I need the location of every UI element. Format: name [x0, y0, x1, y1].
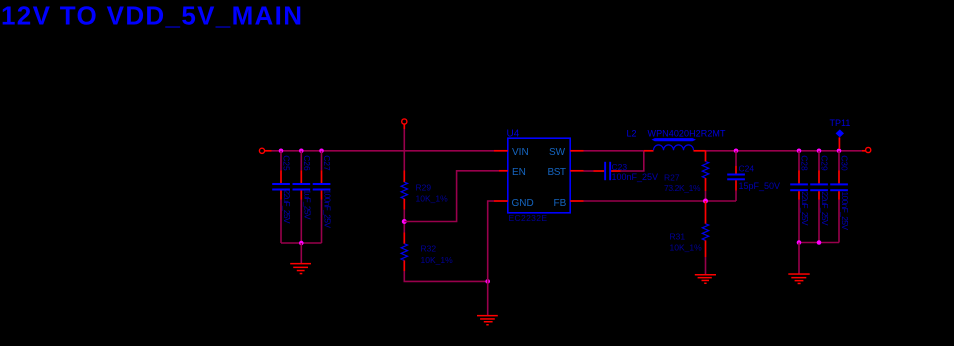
svg-text:EC2232E: EC2232E: [509, 213, 548, 223]
wire output rail: [706, 150, 862, 152]
node rail-C27: [319, 149, 324, 154]
svg-text:22uF_25V: 22uF_25V: [282, 190, 292, 224]
pin VIN stub: [494, 150, 508, 152]
node caps-gnd: [299, 241, 304, 246]
svg-text:12V TO VDD_5V_MAIN: 12V TO VDD_5V_MAIN: [1, 0, 302, 30]
pin FB stub: [570, 200, 583, 202]
node rail-C24: [734, 149, 739, 154]
pin EN stub: [499, 170, 508, 172]
svg-text:73.2K_1%: 73.2K_1%: [664, 183, 701, 193]
ground (IC GND): [477, 315, 498, 326]
svg-text:15pF_50V: 15pF_50V: [739, 181, 781, 191]
resistor R32 10K_1%: [401, 233, 453, 272]
node rail-C25: [279, 149, 284, 154]
capacitor C28 22uF_25V: [790, 151, 810, 243]
wire right caps bottom rail: [799, 242, 839, 244]
svg-text:U4: U4: [507, 129, 520, 140]
wire gnd stub left: [300, 243, 302, 263]
svg-text:VIN: VIN: [512, 147, 529, 158]
node C28-gnd: [797, 240, 802, 245]
node FB/R27/R31: [703, 199, 708, 204]
svg-text:TP11: TP11: [830, 118, 851, 128]
svg-text:C30: C30: [840, 155, 850, 171]
svg-text:C24: C24: [739, 163, 755, 173]
pin BST stub: [570, 170, 583, 172]
wire EN net: [404, 171, 499, 222]
svg-text:10K_1%: 10K_1%: [670, 243, 703, 253]
wire R29 to node: [403, 210, 405, 233]
node R29/R32/EN: [402, 219, 407, 224]
svg-text:WPN4020H2R2MT: WPN4020H2R2MT: [648, 128, 727, 138]
svg-text:C26: C26: [302, 155, 312, 171]
svg-text:C27: C27: [322, 155, 332, 171]
wire SW net: [584, 150, 644, 152]
svg-text:SW: SW: [549, 147, 566, 158]
svg-text:100nF_25V: 100nF_25V: [840, 192, 850, 231]
capacitor C24 15pF_50V: [727, 151, 780, 201]
pin GND stub: [494, 200, 508, 202]
svg-text:100nF_25V: 100nF_25V: [323, 190, 333, 229]
pin SW stub: [570, 150, 583, 152]
title 12V TO VDD_5V_MAIN: [1, 0, 302, 30]
op-amp U1? no: IC U4 EC2232E: [494, 129, 584, 223]
node rail-C29: [817, 149, 822, 154]
node rail-C26: [299, 149, 304, 154]
capacitor C26 1uF_25V: [293, 151, 313, 243]
wire FB net: [584, 200, 737, 202]
port 12V (top, above R29): [402, 119, 407, 129]
svg-text:R31: R31: [670, 232, 686, 242]
resistor R29 10K_1%: [401, 171, 448, 210]
svg-text:10K_1%: 10K_1%: [421, 255, 454, 265]
node C29 bottom: [817, 240, 822, 245]
port 12V input (left): [259, 148, 271, 153]
svg-text:GND: GND: [512, 198, 534, 209]
port VDD_5V_MAIN (right): [862, 147, 871, 152]
node gnd rail: [485, 279, 490, 284]
capacitor C30 100nF_25V: [830, 151, 850, 243]
wire BST loop: [621, 151, 644, 171]
svg-text:1uF_25V: 1uF_25V: [302, 190, 312, 220]
wire main 12V rail: [272, 150, 495, 152]
svg-text:EN: EN: [512, 167, 526, 178]
svg-text:R27: R27: [664, 172, 680, 182]
capacitor C23 100nF_25V: [594, 162, 659, 182]
ground (right caps): [788, 273, 809, 284]
resistor R31 10K_1%: [670, 201, 709, 274]
svg-text:R32: R32: [421, 244, 437, 254]
capacitor C27 100nF_25V: [313, 151, 333, 243]
inductor L2 WPN4020H2R2MT: [627, 128, 727, 150]
wire gnd stub right: [798, 243, 800, 274]
wire R32 bottom to gnd rail: [404, 271, 487, 281]
resistor R27 73.2K_1%: [664, 151, 709, 201]
node rail-TP11/C30: [837, 149, 842, 154]
svg-text:100nF_25V: 100nF_25V: [612, 172, 659, 182]
svg-text:BST: BST: [548, 167, 567, 178]
capacitor C29 22uF_25V: [810, 151, 830, 243]
wire left caps bottom rail: [281, 242, 322, 244]
svg-text:C29: C29: [820, 155, 830, 171]
wire IC GND net: [488, 201, 494, 315]
capacitor C25 22uF_25V: [272, 151, 292, 243]
svg-text:FB: FB: [554, 198, 567, 209]
svg-text:22uF_25V: 22uF_25V: [800, 192, 810, 226]
svg-text:L2: L2: [627, 128, 637, 138]
svg-text:22uF_25V: 22uF_25V: [820, 192, 830, 226]
svg-text:C25: C25: [282, 155, 292, 171]
svg-text:R29: R29: [416, 182, 432, 192]
testpoint TP11: [830, 118, 851, 149]
node rail-C28: [797, 149, 802, 154]
ground (R31): [695, 274, 716, 284]
wire port to R29 (crosses rail): [403, 129, 405, 171]
svg-text:C28: C28: [800, 155, 810, 171]
svg-text:10K_1%: 10K_1%: [416, 194, 449, 204]
svg-text:C23: C23: [612, 162, 628, 172]
ground (left caps): [290, 263, 311, 274]
